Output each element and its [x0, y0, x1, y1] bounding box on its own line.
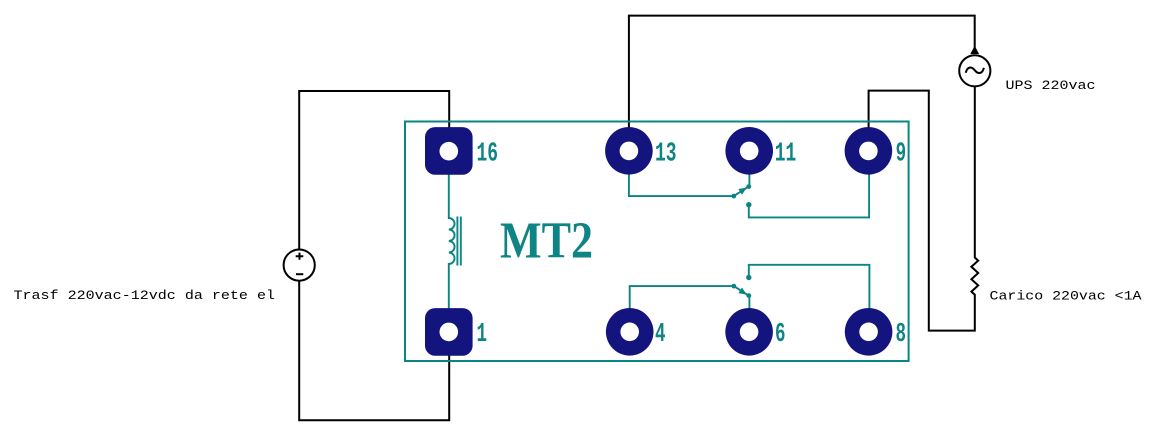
switch SW2 (bottom): common 6, NC 4, NO 8	[630, 265, 870, 311]
pad 1 (square)	[425, 308, 473, 356]
svg-text:MT2: MT2	[500, 212, 593, 269]
wire: left source top loop to pad 16	[299, 91, 449, 250]
AC source UPS	[959, 46, 990, 87]
svg-text:1: 1	[477, 320, 488, 350]
pad 13	[605, 127, 653, 175]
svg-text:16: 16	[477, 139, 499, 169]
svg-text:8: 8	[896, 320, 907, 350]
pad 6	[725, 308, 773, 356]
svg-text:UPS 220vac: UPS 220vac	[1006, 78, 1096, 93]
pad 9	[845, 127, 893, 175]
pin number labels	[477, 139, 907, 350]
svg-text:Carico 220vac <1A: Carico 220vac <1A	[990, 288, 1142, 303]
svg-text:13: 13	[655, 139, 677, 169]
switch SW1 (top): common 11, NC 13, NO 9	[629, 172, 869, 217]
pad 8	[845, 308, 893, 356]
voltage source V1 (Trasf)	[284, 250, 315, 281]
wire: pad 13 to UPS top	[629, 16, 975, 130]
svg-text:Trasf 220vac-12vdc da rete el: Trasf 220vac-12vdc da rete el	[14, 288, 276, 303]
svg-text:4: 4	[655, 320, 666, 350]
wire: left source bottom loop to pad 1	[299, 280, 449, 420]
coil L1 between pads 16 and 1	[449, 170, 461, 312]
wire: UPS bottom through load to pad 9	[869, 87, 979, 331]
svg-text:11: 11	[775, 139, 797, 169]
pad holes	[440, 142, 878, 342]
pad 16 (square)	[425, 127, 473, 175]
pad 11	[725, 127, 773, 175]
pad 4	[606, 308, 654, 356]
relay MT2 body outline	[405, 122, 909, 362]
svg-text:9: 9	[896, 139, 907, 169]
svg-text:6: 6	[775, 320, 786, 350]
